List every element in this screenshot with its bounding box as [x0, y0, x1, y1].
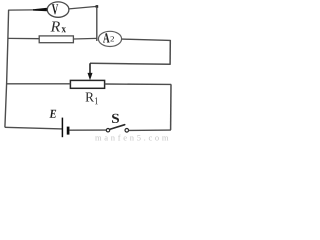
wire left bus to rheostat	[7, 83, 71, 85]
wire vertical drop to ammeter junction	[96, 6, 98, 41]
switch left contact	[106, 129, 109, 132]
voltmeter V1 ellipse	[47, 2, 69, 17]
ammeter A2 ellipse	[98, 31, 121, 46]
wire left bus to Rx	[8, 37, 40, 39]
wire right vertical lower	[170, 84, 172, 130]
wire ammeter to right bus	[122, 39, 171, 40]
resistor Rx body	[39, 36, 73, 43]
wire bottom left segment	[5, 127, 62, 129]
voltmeter label V	[52, 4, 58, 14]
battery long plate	[61, 118, 63, 138]
node junction top corner	[96, 5, 99, 8]
wire voltmeter to top-right corner	[69, 6, 97, 8]
switch lever	[110, 125, 125, 130]
battery short plate	[67, 127, 70, 135]
resistor Rx label	[51, 22, 61, 32]
voltmeter lead arrow wedge	[33, 8, 47, 12]
rheostat label R1	[86, 93, 95, 102]
switch S label	[112, 114, 119, 123]
wire top voltmeter branch left	[8, 9, 34, 11]
wire switch to right bus	[129, 129, 171, 131]
battery E label	[49, 110, 56, 118]
wire rheostat to right bus	[105, 83, 172, 85]
switch right contact	[125, 129, 129, 133]
wire left vertical bus	[5, 10, 9, 128]
ammeter label A2	[103, 33, 110, 42]
svg-text:manfen5.com: manfen5.com	[95, 133, 171, 141]
rheostat wiper arrow	[89, 63, 91, 74]
rheostat R1 body	[70, 80, 104, 88]
wire battery to switch	[69, 129, 106, 131]
wire right vertical upper	[169, 40, 171, 65]
wire Rx to junction	[73, 37, 96, 40]
wire wiper feed horizontal	[90, 62, 171, 65]
